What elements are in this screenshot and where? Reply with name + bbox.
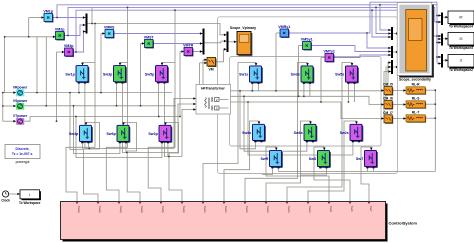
wire RL-T out	[425, 117, 435, 119]
wire VMSy1 out	[311, 46, 391, 52]
wire VMRS input riser	[101, 34, 105, 93]
wire VMTy1 out	[334, 55, 391, 58]
wire muxT2 out	[443, 38, 448, 40]
svg-text:VMRy1: VMRy1	[278, 25, 290, 29]
wire transformer in3	[182, 110, 196, 157]
switch SwT	[356, 150, 378, 168]
wire VM2p input	[5, 36, 56, 38]
switch Sw1p	[65, 66, 89, 84]
wire muxA in2 branch	[376, 7, 391, 33]
measurement wires (purple)	[53, 2, 441, 63]
port Sw5p	[160, 202, 163, 205]
wire sec bus1	[231, 90, 384, 92]
wire VMRy1 in riser	[275, 33, 277, 91]
switch Sw6s	[294, 124, 318, 142]
wire Sw1s pad1 drop	[251, 84, 253, 91]
svg-text:Sw4p: Sw4p	[69, 132, 79, 136]
wire gate SwR	[266, 147, 329, 202]
wire right feed vertical	[436, 2, 438, 63]
port Sw6p	[139, 202, 142, 205]
wire sec bus3	[231, 102, 384, 119]
wire VSpower in	[3, 105, 16, 107]
wire Sw5p pad2 drop	[164, 84, 182, 157]
wire SwS pad2 stub	[300, 168, 326, 175]
wire TW1 in1	[437, 15, 441, 17]
wire Sw5s pad2 drop	[353, 84, 355, 102]
voltage measurement VM2p	[55, 27, 65, 40]
svg-text:To Workspace: To Workspace	[19, 201, 41, 205]
port Sw1s	[202, 202, 205, 205]
wire VM input 2	[200, 62, 208, 64]
wire Sw2p pad1 route	[76, 117, 162, 158]
wire RL-R out	[425, 89, 435, 91]
wire RL return vertical	[434, 90, 436, 171]
svg-text:Sw5s: Sw5s	[335, 73, 344, 77]
svg-text:To Workspace2: To Workspace2	[449, 68, 473, 72]
current measurement CM_I5	[383, 83, 393, 96]
svg-text:CM_I5: CM_I5	[383, 83, 393, 87]
transformer HFTransformer	[196, 85, 231, 115]
wire mux1 to muxV	[87, 24, 227, 35]
voltage measurement VMSy1	[301, 37, 313, 50]
wire Sw6p pad1 route	[74, 106, 120, 154]
wire VM out to muxV	[216, 49, 227, 62]
wire CM_I7 tap	[384, 72, 391, 115]
wire muxV to scope	[228, 41, 236, 43]
subsystem ControlSystem	[61, 202, 418, 242]
wire sec bus2	[231, 96, 384, 104]
port Sw2p	[181, 202, 184, 205]
wire Sw3p pad2 drop	[122, 84, 178, 153]
scope Scope_secondarily	[397, 3, 434, 82]
svg-text:Sw4s: Sw4s	[224, 206, 228, 214]
switch Sw3s	[291, 66, 315, 84]
wire SwR pad2 stub	[277, 168, 279, 171]
wire left neutral riser	[4, 37, 6, 93]
switch Sw2s	[340, 124, 364, 142]
port Sw1p	[76, 202, 79, 205]
svg-text:Sw1s: Sw1s	[203, 206, 207, 214]
svg-text:Sw1p: Sw1p	[65, 72, 75, 76]
switch Sw5s	[335, 66, 359, 84]
mux scope Vprimary	[227, 32, 229, 53]
svg-text:VM2p: VM2p	[55, 27, 65, 31]
port SwR	[328, 202, 331, 205]
voltage measurement VMRy1	[278, 25, 290, 38]
mux line voltages	[203, 29, 205, 55]
wire VMST input riser	[141, 44, 145, 106]
svg-text:SwT: SwT	[369, 206, 373, 212]
wire VM1p out	[53, 17, 86, 19]
wire CM_I6 to RL-S	[392, 104, 406, 106]
wire VMST out	[153, 43, 202, 45]
svg-text:Sw3p: Sw3p	[103, 72, 113, 76]
switch SwS	[309, 150, 331, 168]
wire VMTR out	[193, 51, 203, 53]
wire mux2 output	[204, 41, 226, 43]
svg-text:To Workspace3: To Workspace3	[449, 46, 473, 50]
to-workspace To Workspace2	[448, 55, 474, 73]
wire SwR pad1 stub	[262, 168, 272, 174]
voltage measurement VM1p	[43, 9, 53, 22]
svg-text:Ts = 1e-007 s.: Ts = 1e-007 s.	[12, 152, 33, 156]
svg-text:Sw2s: Sw2s	[308, 206, 312, 214]
load branch RL-T	[406, 111, 426, 123]
svg-text:RL-R: RL-R	[412, 83, 420, 87]
AC source VSpower	[13, 99, 28, 110]
annotation box secondary area	[218, 17, 398, 174]
wire TW2 in1	[437, 38, 441, 40]
port Sw3s	[244, 202, 247, 205]
wire Sw1p pad2 drop	[85, 84, 174, 149]
svg-text:HFTransformer: HFTransformer	[201, 86, 225, 90]
svg-text:SwS: SwS	[350, 206, 354, 212]
svg-text:VSpower: VSpower	[13, 99, 28, 103]
svg-text:VM: VM	[208, 68, 213, 72]
switch Sw2p	[148, 125, 172, 143]
wire Sw2s pad route	[248, 102, 353, 155]
mux primary VM	[86, 14, 88, 34]
wire gate Sw1p	[66, 63, 95, 202]
svg-text:Clock: Clock	[1, 198, 10, 202]
port Sw2s	[307, 202, 310, 205]
wire T bus	[24, 117, 180, 122]
powergui block	[5, 145, 40, 165]
wire VM3p out	[73, 32, 86, 53]
port Sw4s	[223, 202, 226, 205]
svg-text:Discrete,: Discrete,	[16, 147, 30, 151]
wire riser x46	[45, 37, 47, 106]
AC source VRpower	[13, 85, 28, 96]
svg-text:ControlSystem: ControlSystem	[389, 221, 418, 226]
svg-text:VM1p: VM1p	[43, 9, 53, 13]
wire VMTR input riser	[180, 52, 184, 117]
wire VMRy1 input	[276, 32, 280, 34]
wire left riser A	[28, 18, 30, 37]
wire VM1p input	[29, 17, 44, 19]
svg-text:VMSy1: VMSy1	[301, 37, 313, 41]
wire CM_I5 to RL-R	[392, 90, 406, 92]
svg-text:Sw6s: Sw6s	[294, 131, 303, 135]
voltage measurement VMTy1	[324, 49, 335, 62]
wire Sw1p pad1 drop	[78, 84, 80, 93]
mux scope A	[391, 27, 393, 40]
switch Sw4p	[69, 125, 93, 143]
wire riser x56	[56, 52, 58, 121]
svg-text:Sw3p: Sw3p	[119, 206, 123, 214]
wire VM input 1	[203, 59, 207, 61]
voltage measurement VMTR	[183, 43, 194, 56]
wire VMTy1 input	[321, 57, 325, 59]
mux workspace 2	[441, 34, 443, 46]
svg-text:IT: IT	[460, 59, 463, 63]
voltage measurement VMST	[144, 35, 155, 48]
wire arrowheads	[13, 14, 448, 195]
wire TW2 in2	[437, 42, 441, 44]
mux scope C	[391, 60, 393, 74]
wire gate Sw3p	[106, 63, 127, 202]
wire junction dots	[2, 4, 438, 158]
to-workspace t	[19, 190, 41, 205]
wire CM_I5 tap	[388, 63, 391, 87]
wire clock to workspace	[9, 193, 20, 195]
wire CM_I6 tap	[386, 67, 391, 101]
svg-text:Sw4s: Sw4s	[242, 131, 251, 135]
AC source VTpower	[13, 114, 28, 125]
wire gate Sw2s	[308, 121, 357, 202]
port Sw6s	[265, 202, 268, 205]
svg-text:Sw6p: Sw6p	[140, 206, 144, 214]
svg-text:Scope_secondarily: Scope_secondarily	[399, 77, 431, 81]
wire VM2p top line	[68, 7, 441, 35]
wire VMRy1 branch	[367, 33, 391, 48]
mux workspace 1	[441, 13, 443, 26]
wire VM input 2 riser	[199, 63, 201, 85]
wire tower Sw5p up	[174, 10, 176, 62]
wire transformer in1	[174, 99, 196, 149]
wire VRpower in	[3, 92, 16, 94]
wire TW3 in2	[437, 63, 441, 65]
svg-text:Sw4p: Sw4p	[98, 206, 102, 214]
svg-text:t: t	[29, 193, 30, 197]
wire muxA in1 branch	[380, 5, 391, 30]
switch Sw5p	[145, 66, 169, 84]
svg-text:SwT: SwT	[356, 157, 364, 161]
svg-text:CM_I6: CM_I6	[383, 97, 393, 101]
mux workspace 3	[441, 54, 443, 68]
wire CM_I7 to RL-T	[392, 118, 406, 120]
wire Sw4p pad2 join	[87, 143, 89, 148]
wire VM3p input	[57, 51, 65, 53]
wire Sw3s pad2 drop	[309, 84, 311, 96]
svg-text:VTpower: VTpower	[13, 114, 28, 118]
wire mux1 branch top	[91, 7, 93, 23]
wire Sw4p pad1 route	[70, 93, 82, 150]
wire VM1p top line	[57, 5, 437, 18]
wire TW3 in1	[437, 56, 441, 58]
wire gate Sw5s	[287, 63, 352, 202]
wire gate SwS	[314, 147, 350, 202]
svg-text:SwS: SwS	[309, 157, 317, 161]
wire Sw6s pad route	[244, 96, 307, 151]
wire muxC to scope	[393, 66, 398, 68]
svg-text:VRpower: VRpower	[13, 85, 28, 89]
svg-text:Sw2s: Sw2s	[340, 131, 349, 135]
wire neutral bus	[2, 93, 4, 122]
wire Sw3s pad1 drop	[303, 84, 305, 96]
svg-text:Sw6s: Sw6s	[266, 206, 270, 214]
wire Sw5s pad1 drop	[347, 84, 349, 102]
wire Sw1s pad2 drop	[257, 84, 259, 91]
wire Sw4s pad route	[240, 91, 255, 149]
wire gate Sw4p	[84, 123, 100, 202]
wire SwT pad2 stub	[372, 168, 374, 171]
wire Sw5p pad1 drop	[157, 84, 159, 117]
wire tower Sw3p up	[127, 7, 129, 62]
wire VMSy1 in riser	[298, 46, 300, 97]
wire Sw2p pad2 join	[167, 143, 169, 156]
wire VM input 1 riser	[202, 60, 204, 85]
svg-text:VM3p: VM3p	[64, 44, 74, 48]
svg-text:IS: IS	[459, 37, 462, 41]
svg-text:SwR: SwR	[329, 206, 333, 212]
wire muxA in3 branch	[372, 10, 391, 37]
port SwS	[349, 202, 352, 205]
svg-text:VMTy1: VMTy1	[324, 49, 335, 53]
wire gate Sw4s	[224, 121, 259, 202]
svg-text:CM_I7: CM_I7	[383, 111, 393, 115]
voltage measurement VM3p	[64, 44, 74, 57]
wire muxA to scope	[393, 33, 398, 35]
wire S bus	[24, 105, 176, 107]
svg-text:Sw6p: Sw6p	[106, 132, 116, 136]
current measurement CM_I6	[383, 97, 393, 110]
scope Scope_Vprimary	[230, 26, 256, 56]
switch Sw3p	[103, 66, 127, 84]
mux scope B	[391, 46, 393, 58]
port SwT	[368, 202, 371, 205]
wire RL-S out	[425, 103, 435, 105]
wire gate Sw6s	[266, 121, 311, 202]
svg-text:Sw3s: Sw3s	[245, 206, 249, 214]
svg-text:Sw3s: Sw3s	[291, 73, 300, 77]
wire RL return	[278, 171, 435, 173]
svg-text:Sw2p: Sw2p	[148, 132, 158, 136]
svg-text:RL-T: RL-T	[412, 111, 420, 115]
switch Sw4s	[242, 124, 266, 142]
wire gate SwT	[361, 147, 371, 202]
wire gate Sw1s	[203, 63, 256, 202]
wire gate Sw6p	[124, 123, 141, 202]
wire transformer in2	[178, 104, 196, 153]
wire muxB to scope	[393, 51, 398, 53]
wire Sw3p pad1 drop	[115, 84, 117, 106]
svg-text:RL-S: RL-S	[412, 97, 420, 101]
switch SwR	[261, 150, 283, 168]
wire VMTy1 in riser	[320, 58, 322, 103]
to-workspace To Workspace3	[448, 33, 474, 51]
port Sw3p	[118, 202, 121, 205]
wire gate Sw3s	[245, 63, 308, 202]
svg-text:To Workspace4: To Workspace4	[449, 25, 473, 29]
svg-text:VMRS: VMRS	[104, 25, 115, 29]
wire tower Sw1p up	[94, 24, 96, 63]
wire VMRy1 out	[289, 2, 437, 33]
wire gate Sw2p	[166, 123, 183, 202]
signal wires (gray)	[3, 7, 448, 201]
svg-text:Sw5s: Sw5s	[287, 206, 291, 214]
wire VM3p top line	[76, 10, 441, 52]
wire VM2p out	[64, 25, 86, 36]
wire gate Sw5p	[148, 63, 175, 202]
wire muxT1 out	[443, 16, 448, 18]
to-workspace To Workspace4	[448, 11, 474, 29]
wire R bus	[24, 92, 172, 94]
switch Sw1s	[239, 66, 263, 84]
svg-text:Sw5p: Sw5p	[145, 72, 155, 76]
svg-text:Scope_Vpimary: Scope_Vpimary	[230, 26, 256, 30]
svg-text:Sw5p: Sw5p	[161, 206, 165, 214]
load branch RL-R	[406, 83, 426, 95]
svg-text:VMTR: VMTR	[183, 43, 194, 47]
svg-text:VMST: VMST	[144, 35, 155, 39]
current measurement CM_I7	[383, 111, 393, 124]
wire riser x37	[36, 37, 38, 93]
annotation box secondary converter	[230, 57, 382, 147]
svg-text:Sw1p: Sw1p	[77, 206, 81, 214]
voltage measurement VMRS	[104, 25, 115, 38]
switch Sw6p	[106, 125, 130, 143]
wire VTpower in	[3, 120, 16, 122]
load branch RL-S	[406, 97, 426, 109]
svg-text:Sw1s: Sw1s	[239, 73, 248, 77]
wire VMRS out	[114, 33, 203, 35]
svg-text:powergui: powergui	[16, 160, 30, 164]
wire muxT3 out	[443, 59, 448, 61]
wire VMSy1 input	[299, 45, 303, 47]
svg-text:Sw2p: Sw2p	[182, 206, 186, 214]
svg-text:SwR: SwR	[261, 157, 269, 161]
port Sw4p	[97, 202, 100, 205]
port Sw5s	[286, 202, 289, 205]
wire Sw6p pad2 join	[125, 143, 127, 152]
clock block	[1, 191, 10, 202]
wire SwT pad1 stub	[366, 168, 368, 171]
multimeter VM	[207, 58, 217, 72]
